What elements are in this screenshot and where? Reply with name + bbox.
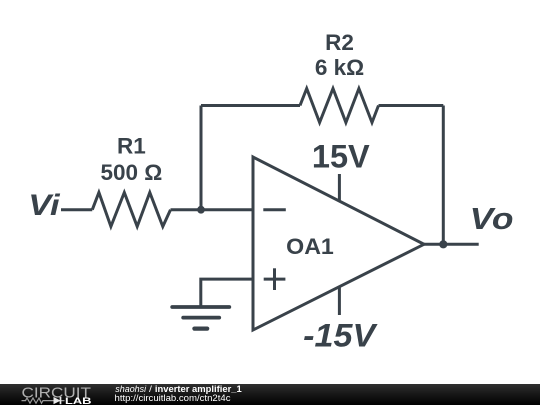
svg-text:LAB: LAB: [65, 396, 92, 405]
svg-text:http://circuitlab.com/ctn2t4c: http://circuitlab.com/ctn2t4c: [115, 393, 232, 403]
op-amp inverting pin minus symbol: [263, 208, 286, 211]
node A junction dot: [197, 206, 205, 214]
ground bottom bar: [194, 327, 207, 331]
svg-text:Vo: Vo: [470, 201, 514, 235]
power 15V stub: [338, 174, 341, 202]
svg-text:15V: 15V: [312, 138, 370, 174]
svg-text:Vi: Vi: [28, 188, 60, 221]
svg-text:-15V: -15V: [303, 318, 378, 354]
svg-text:500 Ω: 500 Ω: [100, 160, 162, 185]
ground middle bar: [183, 316, 219, 320]
svg-text:OA1: OA1: [286, 233, 334, 258]
logo resistor zigzag: [22, 398, 48, 403]
wire feedback left vertical: [200, 106, 203, 210]
wire feedback top right: [379, 104, 444, 107]
resistor R1: [92, 193, 170, 227]
svg-text:R2: R2: [325, 30, 354, 55]
svg-text:R1: R1: [117, 134, 146, 159]
wire feedback right vertical: [442, 106, 445, 245]
op-amp OA1 triangle: [253, 157, 424, 330]
wire output: [424, 243, 479, 246]
wire R1 to node A: [171, 208, 202, 211]
node B output junction dot: [439, 240, 447, 248]
wire non-inverting input to ground: [201, 279, 253, 307]
logo diode: [48, 397, 65, 404]
ground top bar: [172, 305, 229, 309]
wire feedback top left: [201, 104, 300, 107]
wire node A to op-amp inverting input: [201, 208, 253, 211]
wire Vi lead: [61, 208, 92, 211]
svg-text:6 kΩ: 6 kΩ: [315, 55, 364, 80]
power -15V stub: [338, 288, 341, 316]
op-amp non-inverting pin plus symbol: [264, 278, 286, 281]
resistor R2: [300, 89, 379, 123]
footer bar: [0, 384, 540, 405]
